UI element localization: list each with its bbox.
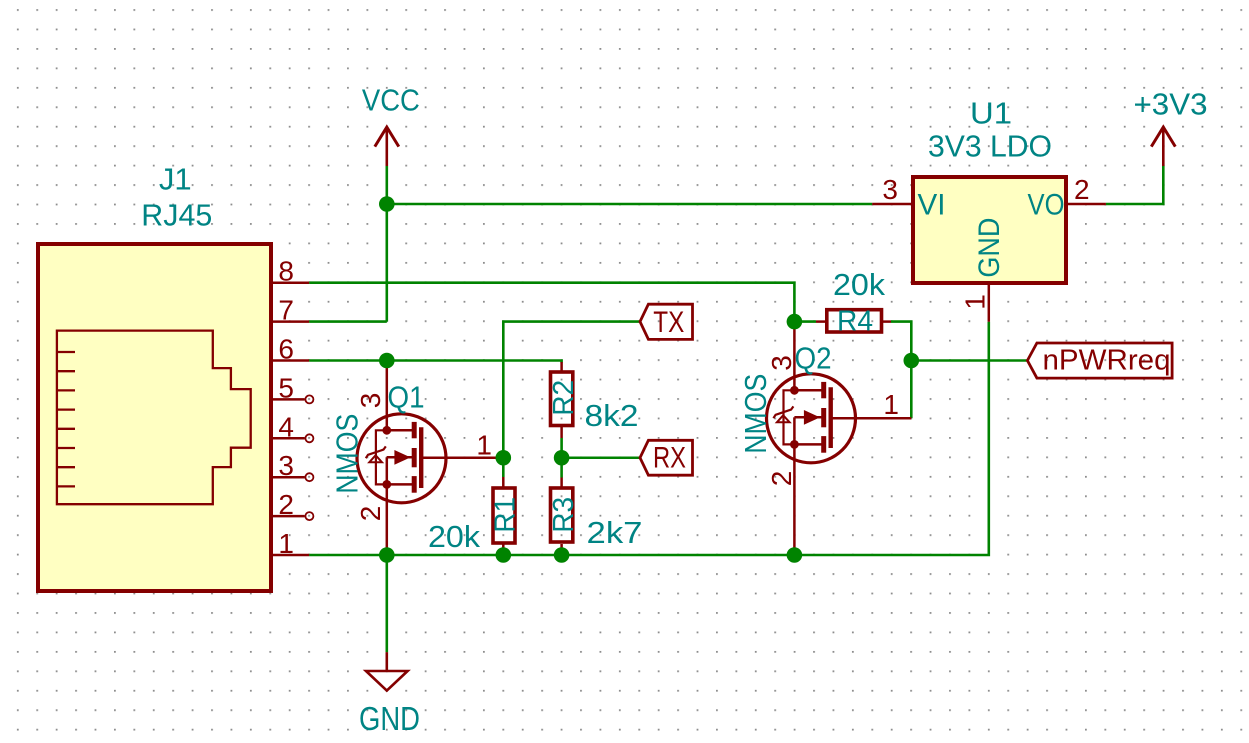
svg-text:1: 1 (883, 389, 899, 420)
junction bottom bus R3 (554, 547, 570, 563)
junction nPWRreq (904, 353, 920, 369)
J1 pin 7 (271, 320, 309, 323)
wire R4 right to Q2 gate corner (891, 322, 911, 419)
J1 pin 3 (271, 476, 305, 479)
transistor Q1 NMOS (357, 361, 503, 556)
svg-text:3: 3 (882, 174, 898, 205)
wire pin8 RJ45 to Q2 drain / R4 node (309, 283, 794, 322)
wire RX node to RX label (562, 456, 640, 459)
wire R2 bottom to RX node (560, 438, 563, 478)
svg-text:8: 8 (278, 256, 294, 287)
svg-text:2k7: 2k7 (587, 515, 643, 550)
svg-text:nPWRreq: nPWRreq (1043, 344, 1171, 376)
svg-text:R1: R1 (489, 497, 521, 533)
svg-text:VCC: VCC (362, 83, 420, 118)
regulator U1 body (913, 177, 1066, 283)
svg-text:20k: 20k (428, 519, 481, 554)
junction gate node (496, 450, 512, 466)
wire nPWRreq (911, 359, 1027, 362)
svg-text:3V3 LDO: 3V3 LDO (928, 128, 1052, 163)
svg-text:3: 3 (766, 355, 797, 371)
wire gate node down to R1 (502, 458, 505, 477)
wire VCC vertical (385, 166, 388, 322)
wire R4 left stub (794, 320, 816, 323)
svg-text:TX: TX (653, 306, 684, 339)
svg-text:R3: R3 (548, 497, 580, 533)
svg-text:R2: R2 (548, 380, 580, 416)
global label TX (640, 304, 693, 339)
svg-text:RJ45: RJ45 (141, 198, 212, 233)
resistor R1 (502, 477, 505, 487)
svg-text:3: 3 (355, 393, 386, 409)
junction VCC/VI (379, 196, 395, 212)
svg-text:VO: VO (1028, 188, 1065, 221)
junction bottom bus Q1 source (379, 547, 395, 563)
J1 pin 4 (271, 437, 305, 440)
wire pin7 RJ45 to VCC vertical (309, 320, 387, 323)
svg-text:NMOS: NMOS (330, 414, 365, 494)
svg-text:GND: GND (973, 218, 1006, 278)
wire U1 VO to +3V3 (1106, 166, 1163, 204)
RJ45 jack teeth (57, 352, 75, 486)
resistor R4 (816, 320, 826, 323)
J1 pin numbers (278, 256, 294, 559)
svg-text:Q1: Q1 (388, 380, 425, 415)
power flag VCC (385, 127, 388, 166)
junction bottom bus R1 (496, 547, 512, 563)
svg-text:7: 7 (278, 295, 294, 326)
svg-text:GND: GND (359, 700, 420, 737)
wire TX to Q1 gate node (503, 322, 640, 458)
resistor R3 (560, 478, 563, 488)
connector J1 RJ45 body (38, 244, 271, 591)
svg-text:2: 2 (1074, 174, 1090, 205)
svg-text:2: 2 (278, 489, 294, 520)
svg-text:NMOS: NMOS (738, 374, 773, 454)
svg-text:J1: J1 (159, 162, 192, 197)
svg-text:3: 3 (278, 450, 294, 481)
svg-text:4: 4 (278, 411, 294, 442)
svg-text:RX: RX (653, 442, 686, 475)
svg-text:1: 1 (278, 528, 294, 559)
svg-text:U1: U1 (970, 95, 1012, 130)
U1 pin 3 VI (872, 203, 913, 206)
power flag GND (385, 652, 388, 671)
svg-text:1: 1 (959, 294, 990, 310)
J1 pin 8 (271, 281, 309, 284)
global label RX (640, 440, 693, 475)
power flag +3V3 (1162, 127, 1165, 166)
svg-text:R4: R4 (837, 306, 873, 338)
svg-text:5: 5 (278, 372, 294, 403)
global label nPWRreq (1027, 343, 1172, 378)
wire GND bottom bus pin1 RJ45 to U1 GND (309, 322, 989, 555)
svg-text:6: 6 (278, 334, 294, 365)
wire VCC node to U1 VI (387, 203, 872, 206)
junction RX node (554, 450, 570, 466)
svg-text:8k2: 8k2 (585, 398, 639, 433)
wire GND drop from bottom bus (385, 555, 388, 652)
junction pin6/Q1 drain (379, 353, 395, 369)
resistor R2 (560, 362, 563, 371)
transistor Q2 NMOS (767, 322, 912, 555)
svg-text:2: 2 (355, 506, 386, 522)
U1 pin 1 GND (988, 285, 991, 322)
junction bottom bus Q2 source (787, 547, 803, 563)
J1 pin 6 (271, 359, 309, 362)
junction R4/Q2 drain (787, 314, 803, 330)
J1 pin 5 (271, 398, 305, 401)
svg-text:1: 1 (476, 430, 492, 461)
svg-text:VI: VI (918, 188, 946, 221)
U1 pin 2 VO (1067, 203, 1106, 206)
svg-text:2: 2 (766, 471, 797, 487)
svg-text:Q2: Q2 (795, 341, 832, 376)
J1 pin 1 (271, 554, 309, 557)
svg-text:+3V3: +3V3 (1134, 86, 1208, 121)
wire pin6 RJ45 to R2 top (309, 361, 561, 363)
RJ45 jack outline (57, 331, 251, 505)
J1 pin 2 (271, 515, 305, 518)
svg-text:20k: 20k (833, 267, 886, 302)
